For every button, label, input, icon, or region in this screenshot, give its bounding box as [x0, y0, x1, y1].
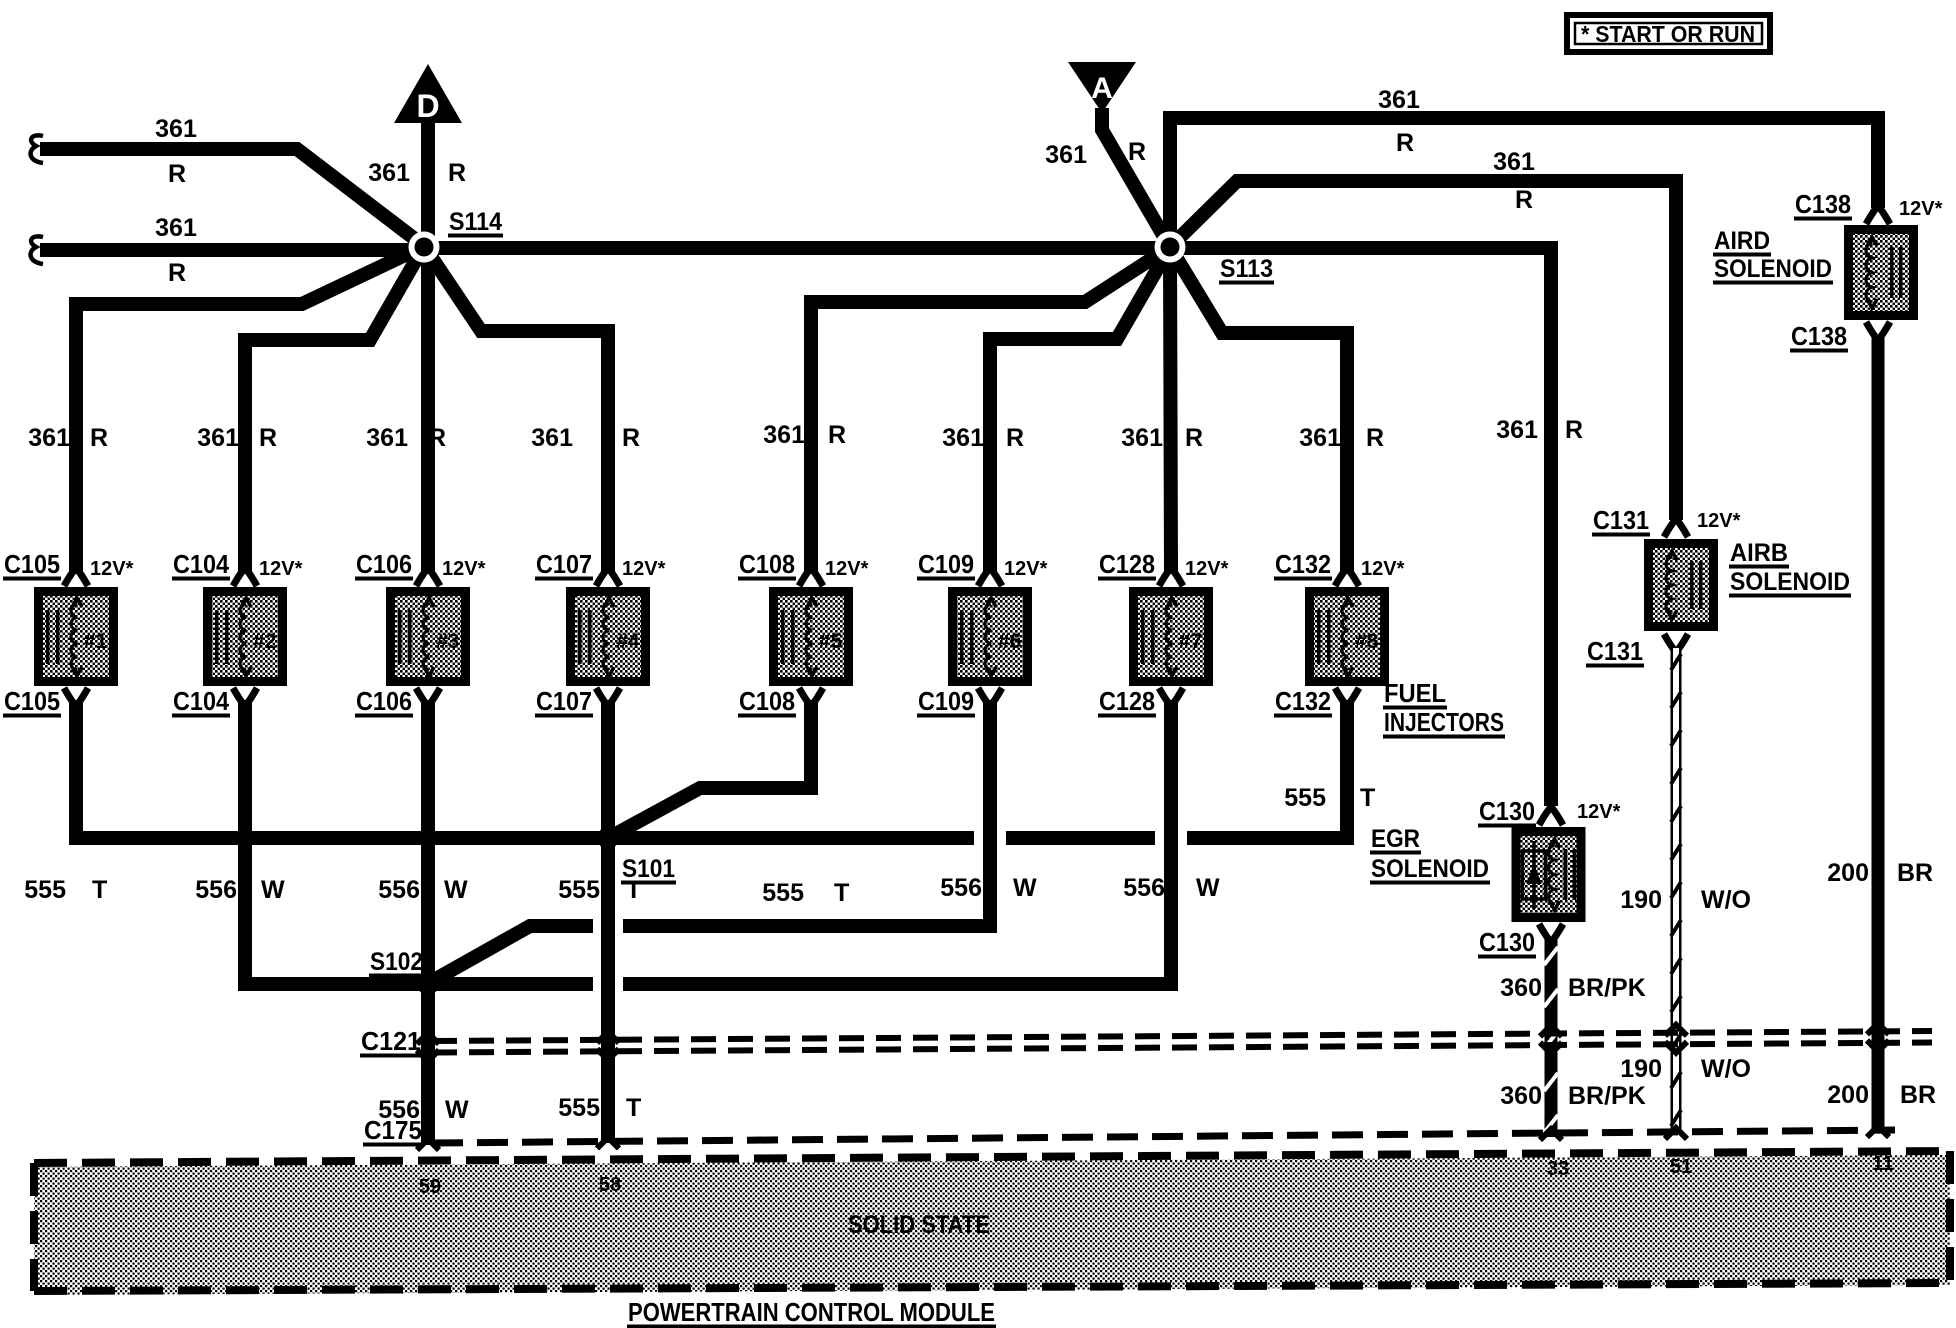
wire 360 BR/PK EGR solenoid to PCM pin 33 [1500, 938, 1646, 1137]
connector C175 fork at pin 51 [1665, 1128, 1687, 1139]
wire 361 R splice S113 to injector #5 (C108) [763, 247, 1170, 574]
svg-text:C105: C105 [4, 549, 60, 579]
svg-text:C131: C131 [1587, 636, 1643, 666]
svg-text:361: 361 [368, 159, 410, 187]
svg-text:200: 200 [1827, 859, 1869, 887]
svg-text:C108: C108 [739, 549, 795, 579]
connector C104 top fork [233, 560, 257, 586]
wire 361 R splice S113 to injector #8 (C132) [1170, 247, 1384, 574]
connector C109 bottom fork and label [917, 686, 1002, 718]
svg-text:555: 555 [1284, 784, 1326, 812]
splice S113 [1155, 232, 1275, 285]
wire 556 W injector #2 to splice S102 [195, 702, 424, 984]
svg-text:12V*: 12V* [259, 558, 303, 580]
connector C105 top fork [64, 560, 88, 586]
connector C175 (PCM header dashed line) [363, 1115, 1895, 1147]
connector C106 top fork [416, 560, 440, 586]
AIRB solenoid labels [1729, 539, 1851, 598]
connector C121 crossing forks at 200 wire [1867, 1023, 1889, 1051]
svg-text:C104: C104 [173, 686, 229, 716]
connector C175 fork at pin 11 [1867, 1126, 1889, 1137]
svg-text:C109: C109 [918, 686, 974, 716]
wire 361 R splice S113 to AIRB solenoid (C131) [1170, 148, 1676, 520]
svg-text:R: R [428, 424, 446, 452]
svg-text:12V*: 12V* [1185, 558, 1229, 580]
connector C109 top fork [978, 560, 1002, 586]
wire 361 R from triangle A to splice S113 [1045, 108, 1170, 247]
svg-text:556: 556 [378, 876, 420, 904]
connector C121 crossing forks at 360 wire [1540, 1026, 1562, 1054]
svg-text:12V*: 12V* [1577, 801, 1621, 823]
connector C128 top fork [1159, 560, 1183, 586]
svg-text:556: 556 [1123, 874, 1165, 902]
fuel injector #5 connector C108 top label [738, 549, 869, 581]
connector C106 bottom fork and label [355, 686, 440, 718]
svg-text:555: 555 [24, 876, 66, 904]
AIRD solenoid body [1849, 230, 1914, 316]
svg-text:SOLENOID: SOLENOID [1730, 568, 1850, 596]
connector C138 bottom [1790, 321, 1890, 353]
powertrain control module box [34, 1151, 1950, 1295]
svg-text:C132: C132 [1275, 549, 1331, 579]
splice S114 [409, 208, 504, 263]
wire 361 R upper-left feed (to S114) [31, 115, 424, 246]
svg-text:361: 361 [531, 424, 573, 452]
PCM pin 51 [1670, 1156, 1692, 1178]
svg-text:C128: C128 [1099, 686, 1155, 716]
svg-text:C107: C107 [536, 549, 592, 579]
fuel injector #8 body [1310, 592, 1385, 682]
connector C130 top [1478, 796, 1621, 828]
svg-text:#4: #4 [616, 630, 640, 653]
svg-text:C138: C138 [1791, 321, 1847, 351]
svg-text:361: 361 [1121, 424, 1163, 452]
fuel injector #2 connector C104 top label [172, 549, 303, 581]
connector C175 fork at pin 59 [417, 1139, 439, 1150]
svg-text:58: 58 [599, 1174, 621, 1196]
svg-text:SOLENOID: SOLENOID [1371, 855, 1489, 883]
fuel injector #3 body [391, 592, 466, 682]
svg-text:T: T [1360, 784, 1375, 812]
svg-text:361: 361 [1493, 148, 1535, 176]
svg-text:POWERTRAIN CONTROL MODULE: POWERTRAIN CONTROL MODULE [628, 1297, 995, 1327]
connector C128 bottom fork and label [1098, 686, 1183, 718]
svg-text:BR/PK: BR/PK [1568, 974, 1646, 1002]
connector C131 top [1592, 505, 1741, 537]
connector C175 fork at pin 33 [1540, 1129, 1562, 1140]
wire 361 R splice S113 to AIRD solenoid (C138) [1170, 86, 1878, 247]
connector C131 bottom [1586, 634, 1688, 668]
wire 556 W injector #7 to splice S102 bus [428, 702, 1220, 984]
connector C104 bottom fork and label [172, 686, 257, 718]
wire junction splice S102 [369, 948, 439, 995]
svg-text:R: R [1006, 424, 1024, 452]
PCM pin 58 [599, 1174, 621, 1196]
svg-text:S113: S113 [1220, 255, 1273, 283]
svg-text:11: 11 [1872, 1153, 1893, 1175]
svg-text:SOLID STATE: SOLID STATE [848, 1211, 990, 1239]
svg-text:C138: C138 [1795, 189, 1851, 219]
svg-text:556: 556 [940, 874, 982, 902]
svg-text:EGR: EGR [1371, 825, 1420, 853]
svg-text:C106: C106 [356, 549, 412, 579]
svg-text:190: 190 [1620, 1055, 1662, 1083]
svg-text:W/O: W/O [1701, 886, 1751, 914]
svg-text:555: 555 [762, 879, 804, 907]
svg-text:S102: S102 [370, 948, 423, 976]
wire 555 T injector #1 to splice S101 [24, 702, 600, 904]
svg-text:361: 361 [1299, 424, 1341, 452]
fuel injector #4 connector C107 top label [535, 549, 666, 581]
connector A triangle [1068, 62, 1136, 113]
svg-text:W: W [1013, 874, 1037, 902]
PCM pin 59 [419, 1176, 441, 1198]
svg-text:C104: C104 [173, 549, 229, 579]
connector C130 bottom [1478, 924, 1563, 959]
fuel injector #6 body [953, 592, 1028, 682]
svg-text:C132: C132 [1275, 686, 1331, 716]
wire 200 BR AIRD solenoid to PCM pin 11 [1827, 336, 1936, 1131]
svg-text:361: 361 [942, 424, 984, 452]
wire junction splice S101 [597, 827, 676, 885]
svg-text:12V*: 12V* [90, 558, 134, 580]
svg-text:190: 190 [1620, 886, 1662, 914]
in-line connector C121 (double dashed line) [360, 1026, 1932, 1058]
PCM pin 33 [1547, 1158, 1569, 1180]
svg-text:INJECTORS: INJECTORS [1384, 707, 1504, 737]
connector C132 top fork [1335, 560, 1359, 586]
fuel injector #7 connector C128 top label [1098, 549, 1229, 581]
svg-text:#2: #2 [253, 630, 276, 653]
label 556 W at PCM pin 59 [378, 1096, 469, 1124]
svg-text:W: W [1196, 874, 1220, 902]
svg-text:C128: C128 [1099, 549, 1155, 579]
svg-text:D: D [416, 88, 439, 124]
svg-text:200: 200 [1827, 1081, 1869, 1109]
svg-text:BR: BR [1897, 859, 1933, 887]
svg-text:R: R [828, 421, 846, 449]
svg-text:C131: C131 [1593, 505, 1649, 535]
connector C107 top fork [596, 560, 620, 586]
svg-text:361: 361 [1378, 86, 1420, 114]
wire 361 R splice S113 to EGR solenoid (C130) [1170, 248, 1583, 806]
wire 556 W injector #3 through splice S102 to PCM pin 59 [378, 702, 468, 1145]
AIRB solenoid body [1649, 544, 1714, 627]
svg-text:12V*: 12V* [1899, 198, 1943, 220]
svg-text:R: R [90, 424, 108, 452]
svg-text:C108: C108 [739, 686, 795, 716]
connector C175 fork at pin 58 [597, 1137, 619, 1148]
svg-text:R: R [1396, 129, 1414, 157]
svg-text:R: R [168, 259, 186, 287]
wire 361 R splice S114 to injector #3 (C106) [366, 246, 446, 574]
wire 555 T injector #8 to splice S101 bus [608, 702, 1375, 838]
svg-text:C105: C105 [4, 686, 60, 716]
svg-text:S114: S114 [449, 208, 502, 236]
PCM pin 11 [1872, 1153, 1893, 1175]
wire 361 R splice S114 to injector #2 (C104) [197, 246, 424, 574]
svg-text:FUEL: FUEL [1384, 678, 1446, 708]
svg-text:#1: #1 [84, 630, 108, 653]
svg-text:12V*: 12V* [442, 558, 486, 580]
wire 556 W injector #6 to splice S102 bus [434, 702, 1037, 980]
EGR solenoid body [1516, 832, 1581, 918]
svg-text:BR: BR [1900, 1081, 1936, 1109]
wire 361 R splice S113 to injector #6 (C109) [942, 247, 1170, 574]
fuel injector #7 body [1134, 592, 1209, 682]
connector C121 crossing forks at 190 wire [1665, 1025, 1687, 1053]
svg-text:12V*: 12V* [825, 558, 869, 580]
svg-text:361: 361 [28, 424, 70, 452]
svg-text:W: W [445, 1096, 469, 1124]
connector D triangle [394, 64, 462, 124]
fuel injector #2 body [208, 592, 283, 682]
svg-text:C121: C121 [361, 1026, 421, 1056]
svg-text:R: R [1515, 186, 1533, 214]
wire 555 T injector #5 to splice S101 [612, 702, 849, 907]
svg-text:C175: C175 [364, 1115, 422, 1145]
svg-text:555: 555 [558, 876, 600, 904]
svg-text:361: 361 [763, 421, 805, 449]
svg-text:#3: #3 [436, 630, 459, 653]
svg-text:12V*: 12V* [1361, 558, 1405, 580]
svg-text:AIRD: AIRD [1714, 227, 1770, 255]
svg-text:C130: C130 [1479, 796, 1535, 826]
AIRD solenoid labels [1713, 227, 1833, 285]
svg-text:AIRB: AIRB [1730, 539, 1788, 567]
svg-text:C109: C109 [918, 549, 974, 579]
connector C121 crossing forks at C106 wire [417, 1033, 439, 1061]
svg-text:C106: C106 [356, 686, 412, 716]
fuel injector #3 connector C106 top label [355, 549, 486, 581]
wire 361 R lower-left feed (to S114) [31, 214, 424, 287]
fuel injector #8 connector C132 top label [1274, 549, 1405, 581]
svg-text:360: 360 [1500, 974, 1542, 1002]
svg-text:R: R [1128, 138, 1146, 166]
svg-text:W/O: W/O [1701, 1055, 1751, 1083]
svg-text:S101: S101 [622, 855, 675, 883]
connector C107 bottom fork and label [535, 686, 620, 718]
svg-text:C130: C130 [1479, 927, 1535, 957]
connector C105 bottom fork and label [3, 686, 88, 718]
label 555 T at PCM pin 58 [558, 1094, 641, 1122]
wire 361 R splice S113 to injector #7 (C128) [1121, 247, 1203, 574]
svg-text:51: 51 [1670, 1156, 1692, 1178]
svg-text:T: T [626, 1094, 641, 1122]
svg-text:A: A [1091, 72, 1113, 105]
svg-text:361: 361 [1496, 416, 1538, 444]
svg-text:R: R [1185, 424, 1203, 452]
svg-text:361: 361 [1045, 141, 1087, 169]
wire 361 R from triangle D to splice S114 [368, 120, 466, 250]
svg-text:555: 555 [558, 1094, 600, 1122]
wire 361 R splice S114 to injector #4 (C107) [424, 246, 640, 574]
svg-text:T: T [92, 876, 107, 904]
fuel injector #5 body [774, 592, 849, 682]
svg-text:556: 556 [195, 876, 237, 904]
svg-text:#5: #5 [819, 630, 843, 653]
svg-text:12V*: 12V* [1004, 558, 1048, 580]
svg-text:R: R [448, 159, 466, 187]
svg-text:BR/PK: BR/PK [1568, 1082, 1646, 1110]
svg-text:12V*: 12V* [1697, 510, 1741, 532]
svg-text:361: 361 [366, 424, 408, 452]
svg-text:R: R [259, 424, 277, 452]
svg-text:361: 361 [155, 115, 197, 143]
svg-text:W: W [444, 876, 468, 904]
svg-text:#6: #6 [998, 630, 1021, 653]
svg-text:C107: C107 [536, 686, 592, 716]
wire 555 T injector #4 through splice S101 to PCM pin 58 [558, 702, 641, 1143]
svg-text:R: R [168, 160, 186, 188]
wire 361 bus splice S114 to splice S113 [424, 241, 1170, 255]
connector C108 bottom fork and label [738, 686, 823, 718]
svg-text:#7: #7 [1179, 630, 1202, 653]
svg-text:R: R [1565, 416, 1583, 444]
svg-text:W: W [261, 876, 285, 904]
label FUEL INJECTORS [1383, 678, 1505, 739]
svg-text:12V*: 12V* [622, 558, 666, 580]
connector C132 bottom fork and label [1274, 686, 1359, 718]
fuel injector #1 connector C105 top label [3, 549, 134, 581]
svg-text:R: R [1366, 424, 1384, 452]
svg-text:361: 361 [155, 214, 197, 242]
svg-text:SOLENOID: SOLENOID [1714, 255, 1832, 283]
label SOLID STATE [848, 1211, 990, 1239]
svg-text:* START OR RUN: * START OR RUN [1581, 21, 1755, 47]
fuel injector #4 body [571, 592, 646, 682]
wire 361 R splice S114 to injector #1 (C105) [28, 246, 424, 574]
svg-text:361: 361 [197, 424, 239, 452]
svg-text:R: R [622, 424, 640, 452]
label POWERTRAIN CONTROL MODULE [627, 1297, 996, 1328]
legend box START OR RUN [1567, 15, 1770, 52]
wire 190 W/O AIRB solenoid to PCM pin 51 [1620, 648, 1751, 1134]
fuel injector #6 connector C109 top label [917, 549, 1048, 581]
connector C108 top fork [799, 560, 823, 586]
svg-text:T: T [834, 879, 849, 907]
svg-text:59: 59 [419, 1176, 441, 1198]
EGR solenoid labels [1370, 825, 1490, 885]
connector C138 top [1794, 189, 1943, 224]
svg-text:33: 33 [1547, 1158, 1569, 1180]
connector C121 crossing forks at C107 wire [597, 1032, 619, 1060]
svg-text:360: 360 [1500, 1082, 1542, 1110]
svg-text:#8: #8 [1355, 630, 1379, 653]
fuel injector #1 body [39, 592, 114, 682]
